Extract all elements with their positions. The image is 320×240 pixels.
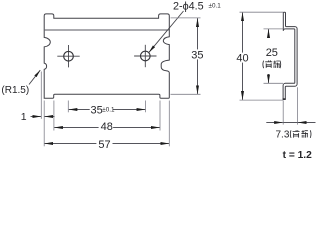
svg-text:2-ϕ4.5: 2-ϕ4.5 [173,1,204,13]
dim 48 [53,101,55,131]
side foot cap [283,98,286,100]
leader 2-phi4.5 [149,11,184,52]
svg-text:35: 35 [91,104,103,116]
dim 35 +-0.1 between holes [67,101,69,113]
svg-text:57: 57 [98,139,110,151]
label 7.3 (front-end) CJK [290,130,311,138]
hole left [64,51,74,61]
svg-text:40: 40 [236,52,248,64]
side view sheet profile [283,12,297,99]
svg-text:7.3: 7.3 [276,129,290,140]
dim 40 [240,11,284,13]
dim 35 vertical [171,17,201,19]
svg-text:±0.1: ±0.1 [209,3,222,10]
front view bracket outline [44,14,169,98]
svg-text:1: 1 [21,111,27,123]
label (front-end) CJK [263,60,281,68]
dim 7.3 (front end) [282,100,284,124]
hole left crosshair [57,55,79,57]
svg-text:35: 35 [191,49,203,61]
hole right crosshair [134,55,156,57]
label (R1.5) with leader [29,70,40,84]
dim 25 (front end) [264,28,284,30]
hole right [141,51,151,61]
svg-text:±0.1: ±0.1 [102,107,115,114]
svg-text:25: 25 [266,47,278,59]
dim 1 [40,72,42,119]
fold line [45,29,169,31]
svg-text:(R1.5): (R1.5) [1,85,29,96]
dim 57 [43,101,45,147]
svg-text:48: 48 [101,121,113,133]
svg-text:t = 1.2: t = 1.2 [283,150,312,161]
